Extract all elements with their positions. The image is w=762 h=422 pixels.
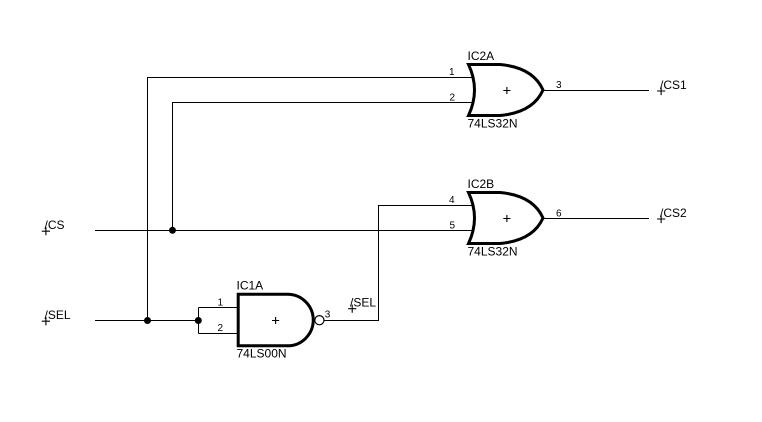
svg-text:74LS32N: 74LS32N: [468, 117, 518, 131]
wire NAND input tee: [199, 308, 238, 334]
op gate IC2A body (OR gate 74LS32N): [449, 49, 562, 131]
svg-text:/CS1: /CS1: [660, 78, 687, 92]
wire NAND output to IC2B pin4: [325, 206, 474, 321]
nand gate IC1A body (NAND 74LS00N): [217, 279, 330, 361]
junction on /SEL at x=147: [144, 317, 151, 324]
node /SEL label: [42, 308, 71, 325]
node /SEL mid label (NAND output net): [348, 296, 376, 313]
junction on /SEL at NAND tee: [195, 317, 202, 324]
svg-text:/CS: /CS: [45, 218, 65, 232]
svg-text:2: 2: [449, 93, 455, 104]
wire /SEL horizontal net: [95, 320, 198, 322]
wire IC2A output to /CS1: [543, 90, 649, 92]
op gate IC2B body (OR gate 74LS32N): [449, 177, 562, 259]
svg-text:IC2A: IC2A: [468, 49, 495, 63]
node /CS label: [42, 218, 65, 235]
junction on /CS at x=172: [169, 227, 176, 234]
svg-text:74LS32N: 74LS32N: [468, 245, 518, 259]
svg-text:/CS2: /CS2: [660, 206, 687, 220]
svg-text:2: 2: [217, 323, 223, 334]
svg-text:1: 1: [217, 298, 223, 309]
svg-text:IC1A: IC1A: [237, 279, 264, 293]
node /CS1 label: [657, 78, 687, 95]
svg-text:6: 6: [556, 209, 562, 220]
svg-text:/SEL: /SEL: [45, 308, 71, 322]
svg-text:74LS00N: 74LS00N: [237, 347, 287, 361]
svg-text:3: 3: [556, 80, 562, 91]
svg-text:3: 3: [325, 310, 331, 321]
svg-text:IC2B: IC2B: [468, 177, 495, 191]
wire /CS horizontal net: [95, 230, 474, 232]
node /CS2 label: [657, 206, 687, 223]
wire IC2B output to /CS2: [543, 218, 649, 220]
svg-text:1: 1: [449, 67, 455, 78]
svg-text:/SEL: /SEL: [350, 296, 376, 310]
svg-text:4: 4: [449, 195, 455, 206]
svg-text:5: 5: [449, 221, 455, 232]
wire vertical from /SEL junction up to IC2A pin1: [148, 78, 474, 321]
wire vertical from /CS junction up to IC2A pin2: [173, 103, 474, 231]
